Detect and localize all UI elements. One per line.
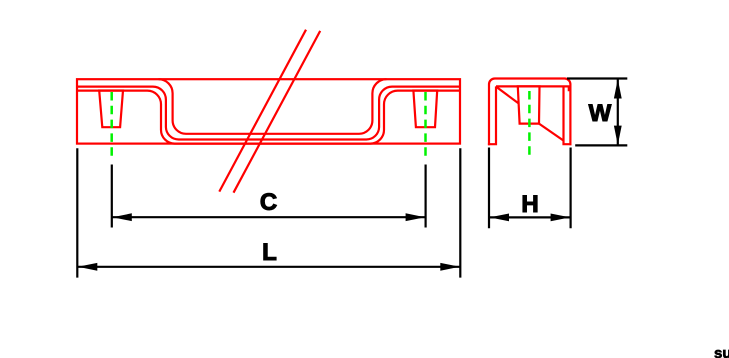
svg-text:su: su (714, 345, 729, 358)
svg-text:H: H (521, 191, 538, 218)
svg-text:C: C (260, 189, 277, 216)
svg-text:L: L (262, 239, 277, 266)
svg-text:W: W (589, 100, 612, 127)
